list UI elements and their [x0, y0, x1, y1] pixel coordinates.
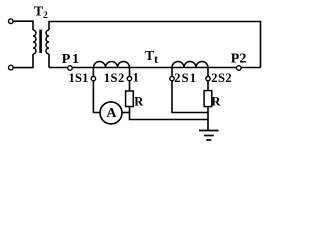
terminal X2 (bottom-left) [9, 65, 14, 70]
svg-text:2S2: 2S2 [211, 71, 232, 85]
node 1S1 [91, 76, 95, 80]
coil W2 primary of tested CT Tt [172, 62, 208, 68]
wire 2S1 drop to ground node [172, 68, 208, 113]
svg-text:A: A [106, 106, 117, 121]
wire 2S2 drop to resistor R2 [207, 68, 209, 91]
node 2S1 [170, 76, 174, 80]
transformer T2 secondary winding [46, 30, 49, 54]
node P2 [237, 66, 242, 71]
svg-text:1: 1 [133, 71, 139, 85]
wire R1 bottom to ground bus [130, 107, 209, 120]
terminal X1 (top-left) [9, 19, 14, 24]
wire ammeter right to R1 bottom node [122, 112, 130, 114]
transformer T2 core [39, 30, 42, 54]
svg-text:R: R [134, 95, 144, 109]
node 1S2 [127, 76, 131, 80]
ground [199, 130, 219, 132]
wire bottom-left terminal to transformer [13, 54, 33, 68]
coil W1 primary of standard CT [94, 62, 130, 68]
wire transformer secondary bottom to main bus [48, 54, 50, 68]
wire R2 bottom to ground [207, 107, 209, 131]
svg-text:P2: P2 [231, 51, 247, 66]
wire top-left terminal to transformer [13, 21, 33, 30]
resistor R1 [126, 91, 134, 107]
resistor R2 [204, 91, 212, 107]
svg-text:1S2: 1S2 [104, 71, 125, 85]
svg-text:2S1: 2S1 [174, 71, 197, 85]
svg-text:1S1: 1S1 [69, 71, 89, 85]
main bottom bus wire P1..P2 [49, 67, 261, 69]
wire 1S1 drop to ammeter [93, 68, 100, 113]
ammeter A [100, 102, 122, 124]
svg-text:P1: P1 [62, 52, 81, 67]
wire transformer secondary top to top bus and right side down [49, 22, 261, 68]
node P1 [68, 66, 73, 71]
transformer T2 primary winding [33, 30, 36, 54]
svg-text:R: R [211, 95, 221, 109]
node 2S2 [206, 76, 210, 80]
wire 1S2 drop to resistor R [129, 68, 131, 92]
